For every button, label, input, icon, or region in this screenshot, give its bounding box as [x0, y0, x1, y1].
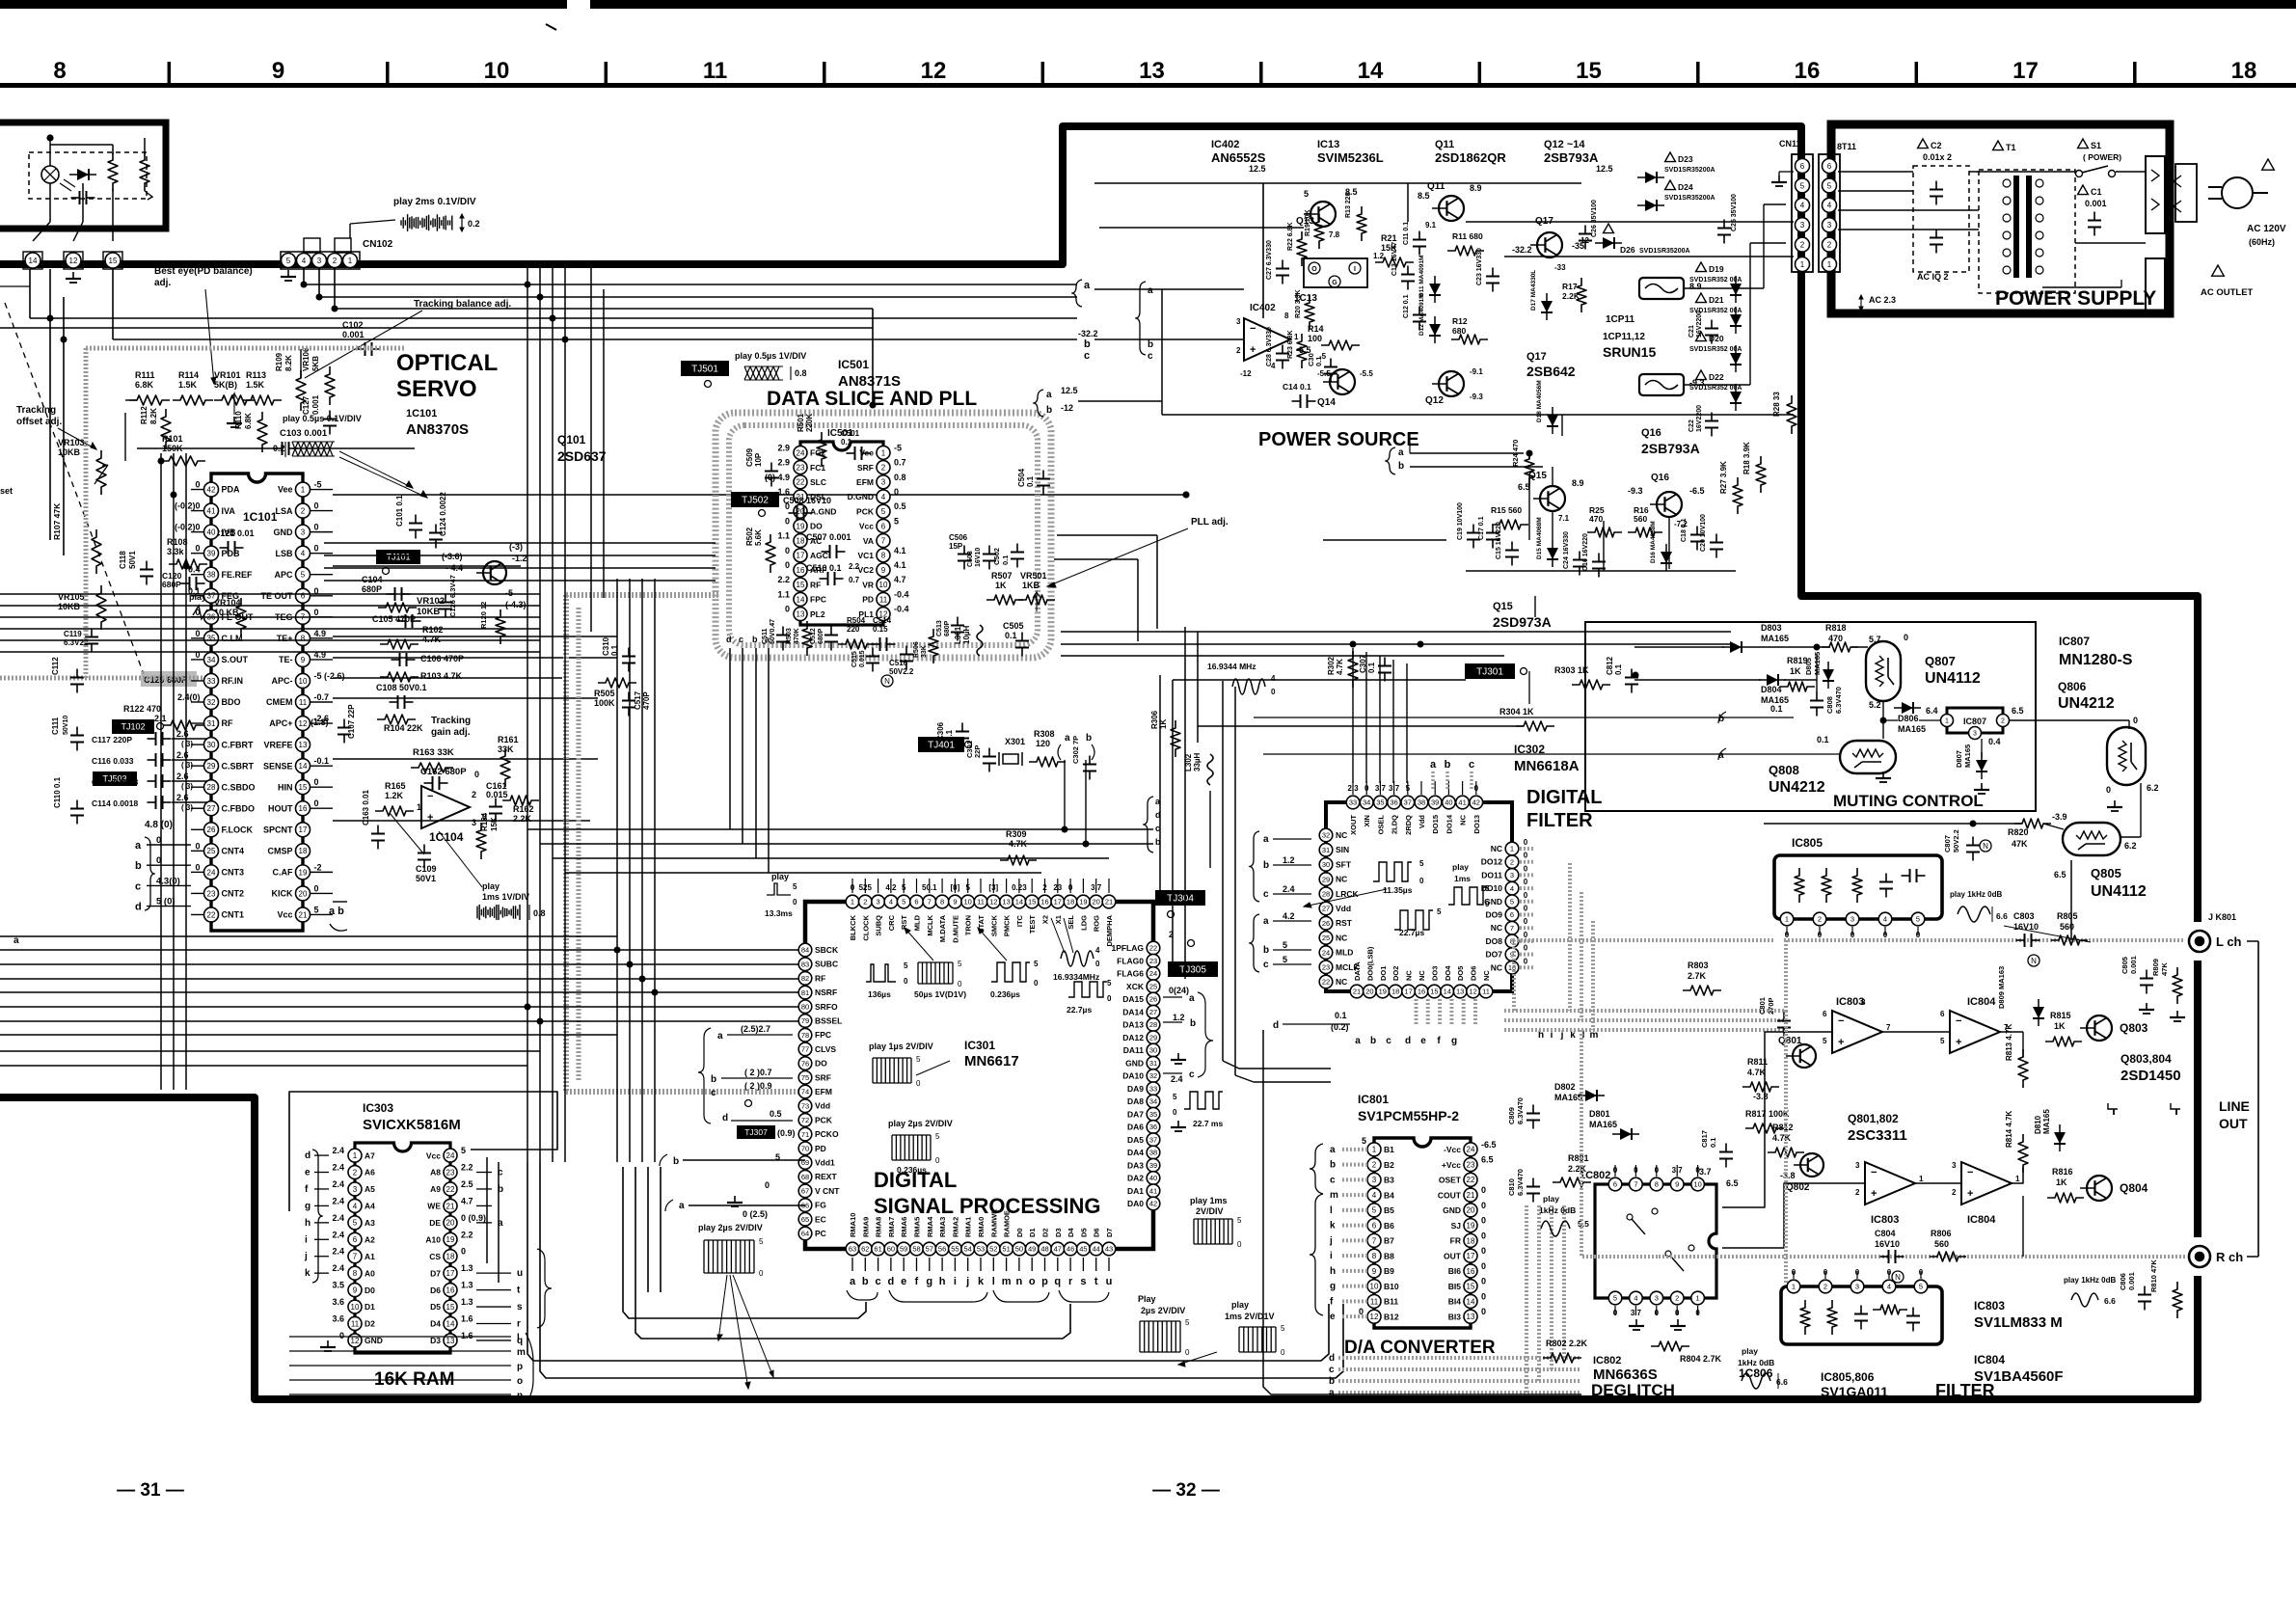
svg-text:24: 24	[1467, 1146, 1475, 1154]
svg-text:C507 0.001: C507 0.001	[806, 532, 851, 542]
ruler tick	[1915, 62, 1919, 83]
svg-text:0.1: 0.1	[1817, 735, 1829, 744]
svg-text:7: 7	[1886, 1023, 1891, 1032]
IC301 pin 23	[1147, 954, 1160, 967]
svg-text:0: 0	[1524, 891, 1528, 900]
svg-text:1PFLAG: 1PFLAG	[1111, 943, 1144, 953]
wire a down	[768, 648, 770, 873]
bus route 3	[527, 1162, 1329, 1361]
svg-text:CLOCK: CLOCK	[861, 914, 870, 940]
svg-text:2.9: 2.9	[777, 458, 790, 468]
svg-text:0.015: 0.015	[486, 790, 508, 799]
svg-text:11: 11	[299, 698, 308, 707]
svg-text:C126 6.3V47: C126 6.3V47	[448, 575, 457, 617]
svg-text:0.1: 0.1	[1314, 357, 1323, 366]
svg-text:37: 37	[1404, 798, 1412, 807]
svg-text:IC803: IC803	[1836, 996, 1864, 1008]
svg-text:R21: R21	[1381, 233, 1397, 243]
hatched stub down	[1462, 999, 1466, 1024]
wire	[137, 447, 278, 449]
svg-text:5: 5	[1510, 898, 1514, 907]
hatched wire to Lch line	[1514, 940, 1774, 1011]
wire to pin	[172, 738, 211, 740]
svg-text:C809: C809	[1507, 1107, 1516, 1124]
svg-text:D15 MA4068M: D15 MA4068M	[1536, 517, 1543, 559]
diode D16	[1661, 544, 1672, 571]
diode D19	[1730, 276, 1742, 303]
IC301 pin 79	[798, 1015, 812, 1028]
capacitor C23	[1486, 268, 1499, 292]
svg-text:-5 (-2.6): -5 (-2.6)	[314, 671, 345, 681]
svg-text:0.1: 0.1	[1026, 475, 1035, 487]
svg-text:-5: -5	[505, 588, 513, 598]
svg-text:83: 83	[801, 960, 809, 968]
svg-text:B7: B7	[1384, 1236, 1394, 1246]
svg-text:D1: D1	[1028, 1228, 1037, 1237]
svg-text:-9.3: -9.3	[1470, 392, 1483, 401]
svg-text:-Vcc: -Vcc	[1444, 1145, 1461, 1154]
svg-text:A7: A7	[365, 1150, 375, 1160]
op-amp IC804a	[1950, 1011, 2000, 1053]
pot VR106	[325, 366, 335, 405]
transistor Q11	[1432, 196, 1464, 221]
svg-text:UN4212: UN4212	[1769, 779, 1825, 796]
svg-text:C16 16V220: C16 16V220	[1582, 533, 1589, 571]
wire to CN11 pin3	[1763, 204, 1765, 288]
svg-text:UN4212: UN4212	[2058, 695, 2115, 712]
Q15 Q16 bias network	[1457, 440, 1723, 578]
leader line	[305, 311, 422, 378]
TJ301 drop	[1528, 671, 1530, 704]
resistor R25	[1587, 528, 1622, 537]
svg-text:5.5: 5.5	[1578, 1219, 1589, 1229]
svg-text:5: 5	[1940, 1037, 1945, 1045]
svg-text:C110 0.1: C110 0.1	[53, 776, 62, 808]
svg-text:2SB642: 2SB642	[1526, 364, 1576, 379]
CN11 pin 2	[1796, 237, 1810, 252]
svg-text:B6: B6	[1384, 1221, 1394, 1231]
svg-text:A2: A2	[365, 1234, 375, 1244]
svg-text:S1: S1	[2091, 141, 2101, 150]
main schematic block outline	[0, 126, 2198, 1399]
wire down to pin 12	[82, 183, 84, 222]
IC806 capacitor 2	[1906, 1308, 1920, 1332]
svg-text:C804: C804	[1875, 1229, 1896, 1238]
capacitor C804	[1880, 1250, 1904, 1263]
IC301 pin 19	[1077, 895, 1091, 908]
IC301 pin 84	[798, 943, 812, 957]
svg-text:C805: C805	[2120, 957, 2129, 974]
dashed T1 box	[1979, 170, 2075, 293]
junction dot	[537, 294, 543, 300]
dot a-R24	[1526, 450, 1532, 456]
svg-text:9: 9	[953, 898, 957, 907]
svg-text:-3.8: -3.8	[1753, 1092, 1769, 1101]
IC302 bottom hatched bus	[1355, 863, 1786, 1046]
svg-text:10: 10	[964, 898, 972, 907]
IC301 pin 70	[798, 1142, 812, 1155]
svg-text:11: 11	[351, 1319, 360, 1328]
IC302 pin 12	[1467, 985, 1480, 998]
svg-text:PLL adj.: PLL adj.	[1191, 517, 1229, 528]
svg-text:4.7K: 4.7K	[1772, 1133, 1792, 1143]
CN102 pin 5	[282, 254, 296, 268]
svg-text:FC1: FC1	[810, 463, 825, 473]
IC805 resistor 3	[1852, 868, 1862, 903]
svg-text:C310: C310	[602, 636, 610, 656]
svg-text:1: 1	[1785, 915, 1789, 924]
CN102 pin 3	[312, 254, 327, 268]
svg-text:0: 0	[314, 777, 319, 787]
svg-text:IC803: IC803	[1974, 1299, 2005, 1313]
svg-text:39: 39	[1431, 798, 1439, 807]
hatched stub	[1520, 886, 1533, 890]
svg-text:IC803: IC803	[1871, 1214, 1899, 1226]
IC301 pin 83	[798, 958, 812, 971]
svg-text:A3: A3	[365, 1218, 375, 1228]
svg-text:0: 0	[1481, 1216, 1486, 1226]
svg-text:C19 10V100: C19 10V100	[1457, 502, 1464, 540]
svg-text:Tracking: Tracking	[431, 716, 471, 726]
IC301 pin 34	[1147, 1095, 1160, 1108]
hatched shield left edge	[84, 348, 89, 680]
svg-text:0.001: 0.001	[2129, 956, 2138, 974]
svg-text:AC 120V: AC 120V	[2247, 224, 2286, 234]
svg-text:8.5: 8.5	[1418, 191, 1430, 201]
IC301 pin 1	[846, 895, 859, 908]
capacitor C16	[1592, 554, 1606, 578]
svg-text:C108 50V0.1: C108 50V0.1	[376, 683, 427, 692]
svg-text:6.3V470: 6.3V470	[1834, 687, 1843, 714]
svg-text:37: 37	[1149, 1135, 1157, 1144]
pin stub up	[992, 879, 994, 893]
svg-text:32: 32	[1322, 831, 1330, 840]
resistor R165	[375, 806, 414, 816]
wire	[1273, 949, 1311, 951]
svg-text:c: c	[1386, 1036, 1391, 1046]
skip3	[805, 495, 807, 540]
svg-text:DO8: DO8	[1486, 936, 1503, 946]
pot VR101	[214, 395, 255, 405]
svg-text:0: 0	[1481, 1261, 1486, 1271]
svg-text:22.7µs: 22.7µs	[1399, 928, 1424, 937]
svg-text:GND: GND	[274, 528, 294, 537]
svg-text:b: b	[752, 635, 758, 644]
svg-text:R507: R507	[991, 571, 1013, 581]
filter IC806	[1739, 1268, 2064, 1400]
svg-text:5.2: 5.2	[1869, 700, 1881, 710]
IC302 pin 19	[1376, 985, 1390, 998]
comb 50us	[918, 960, 962, 988]
svg-text:5: 5	[1919, 1283, 1923, 1291]
svg-text:4.7: 4.7	[461, 1196, 473, 1205]
resistor R814	[2018, 1134, 2028, 1173]
capacitor C124	[429, 525, 443, 549]
svg-text:2: 2	[353, 1168, 358, 1177]
resistor R309	[1000, 855, 1037, 865]
svg-text:C21: C21	[1688, 325, 1695, 338]
TJ101 point	[383, 568, 390, 575]
svg-text:N: N	[2031, 957, 2037, 965]
IC301 pin 71	[798, 1127, 812, 1141]
svg-text:c: c	[876, 1276, 881, 1287]
POWER SUPPLY interior	[1838, 139, 2286, 312]
svg-text:72: 72	[801, 1116, 809, 1124]
svg-text:SVD1SR35200A: SVD1SR35200A	[1664, 167, 1715, 174]
left vertical x180	[173, 453, 175, 1090]
svg-text:C515: C515	[851, 651, 858, 667]
vertical to y665	[1137, 559, 1139, 641]
IC301 pin 20	[1090, 895, 1103, 908]
resistor R21	[1375, 257, 1414, 267]
svg-text:SVD1SR35200A: SVD1SR35200A	[1664, 195, 1715, 202]
ground hook 1	[2108, 1103, 2118, 1109]
svg-text:C112: C112	[51, 657, 60, 675]
leader to Lch wire	[2004, 926, 2091, 942]
misc long wires right	[333, 495, 1581, 678]
IC301 pin 52	[987, 1242, 1001, 1256]
resistor R101	[161, 456, 205, 466]
junction dot	[550, 315, 555, 321]
svg-text:-5: -5	[894, 443, 902, 452]
ground near CN11	[1771, 176, 1787, 186]
svg-text:47: 47	[1054, 1245, 1062, 1254]
svg-text:1C802: 1C802	[1580, 1170, 1610, 1181]
comb bottom 1	[1140, 1318, 1190, 1357]
svg-text:C101 0.1: C101 0.1	[395, 495, 404, 527]
svg-text:SVD1SR352 00A: SVD1SR352 00A	[1689, 346, 1742, 353]
svg-text:A8: A8	[430, 1168, 441, 1177]
optical pickup block outline	[0, 122, 166, 229]
svg-text:C116 0.033: C116 0.033	[92, 756, 134, 766]
svg-text:D0: D0	[365, 1286, 375, 1295]
svg-text:D22: D22	[1709, 372, 1724, 382]
svg-text:R114: R114	[178, 370, 199, 380]
svg-text:10KB: 10KB	[417, 607, 440, 617]
svg-text:VR103: VR103	[58, 438, 85, 447]
svg-text:d: d	[305, 1150, 311, 1161]
wire	[1407, 183, 1409, 222]
svg-text:u: u	[1106, 1276, 1113, 1287]
DAC abc brace	[1310, 1144, 1323, 1194]
IC301 pin 59	[897, 1242, 910, 1256]
pin stub up	[916, 879, 918, 893]
svg-text:KICK: KICK	[272, 889, 293, 899]
pin stub up	[1018, 879, 1020, 893]
svg-text:1: 1	[417, 802, 421, 812]
svg-text:2.2: 2.2	[461, 1230, 473, 1239]
svg-text:50V1: 50V1	[128, 551, 137, 569]
hatched DAC stub	[1342, 1299, 1367, 1303]
svg-text:X2: X2	[1041, 915, 1050, 924]
pot VR102	[378, 603, 417, 612]
winding bump primary	[2003, 249, 2011, 257]
svg-text:1.2: 1.2	[1173, 1013, 1185, 1022]
IC805 pin 5	[1911, 912, 1925, 926]
svg-text:NC: NC	[1336, 830, 1347, 840]
ruler line	[0, 83, 2296, 88]
test jack TJ307	[737, 1125, 775, 1139]
pin stub up	[967, 879, 969, 893]
capacitor C509	[765, 463, 778, 487]
svg-text:50µs 1V(D1V): 50µs 1V(D1V)	[914, 989, 966, 999]
svg-text:R161: R161	[498, 735, 519, 744]
svg-text:6.3V470: 6.3V470	[1516, 1169, 1525, 1196]
capacitor C513	[951, 617, 964, 641]
svg-text:C.LM: C.LM	[222, 634, 243, 643]
svg-text:R803: R803	[1688, 961, 1709, 970]
svg-text:C.FBDO: C.FBDO	[222, 803, 256, 813]
svg-text:560: 560	[2060, 922, 2074, 932]
svg-text:Q14: Q14	[1317, 397, 1336, 408]
wire b srf	[721, 1077, 793, 1079]
IC806 resistor 3	[1873, 1305, 1907, 1314]
svg-text:1.6: 1.6	[461, 1313, 473, 1323]
svg-text:−: −	[1967, 1167, 1973, 1178]
svg-text:0: 0	[1481, 1291, 1486, 1301]
svg-text:7: 7	[928, 898, 932, 907]
wire	[112, 145, 114, 154]
capacitor C118	[140, 561, 153, 585]
svg-text:220: 220	[847, 625, 860, 634]
resistor R161	[500, 748, 510, 787]
resistor R813	[2018, 1049, 2028, 1088]
diode D806	[1894, 702, 1921, 714]
IC301 pin 2	[859, 895, 873, 908]
svg-text:0: 0	[1419, 877, 1424, 885]
svg-text:15: 15	[797, 581, 805, 589]
svg-text:10KB: 10KB	[58, 447, 81, 457]
svg-text:B8: B8	[1384, 1251, 1394, 1260]
svg-text:SV1PCM55HP-2: SV1PCM55HP-2	[1358, 1108, 1459, 1123]
svg-text:j: j	[1329, 1235, 1333, 1246]
Q807 ground	[1876, 771, 1891, 782]
svg-text:c: c	[135, 880, 141, 892]
svg-text:49: 49	[1028, 1245, 1036, 1254]
svg-text:C509: C509	[745, 447, 754, 467]
svg-text:RF: RF	[222, 718, 233, 728]
svg-text:Vdd: Vdd	[1418, 815, 1426, 829]
svg-text:0: 0	[474, 770, 479, 779]
bottom pin stub	[903, 1258, 905, 1271]
svg-text:play 0.5µs 1V/DIV: play 0.5µs 1V/DIV	[735, 351, 806, 361]
hatched DAC stub	[1342, 1285, 1367, 1288]
svg-text:75: 75	[801, 1073, 809, 1082]
hatched DAC stub	[1342, 1254, 1367, 1258]
svg-text:A5: A5	[365, 1184, 375, 1194]
svg-text:4: 4	[1095, 946, 1100, 955]
wire	[1078, 400, 1162, 402]
svg-text:R18 3.9K: R18 3.9K	[1742, 442, 1751, 474]
transistor Q16	[1650, 492, 1682, 517]
resistor R803	[1683, 986, 1721, 995]
power source wires	[1033, 183, 1794, 571]
svg-text:C13 16V47: C13 16V47	[1391, 242, 1398, 276]
resistor R102	[380, 639, 419, 649]
junction dot	[61, 337, 67, 342]
svg-text:0: 0	[1524, 838, 1528, 847]
svg-text:19: 19	[797, 522, 805, 530]
ruler tick	[1259, 62, 1263, 83]
resistor R17	[1577, 278, 1586, 312]
svg-text:2: 2	[1952, 1188, 1957, 1197]
svg-text:F.LOCK: F.LOCK	[222, 825, 254, 834]
ruler tick	[605, 62, 608, 83]
svg-text:NC: NC	[1418, 970, 1426, 981]
pin stub up	[1057, 879, 1059, 893]
IC301 pin 26	[1147, 992, 1160, 1006]
svg-text:R302: R302	[1327, 656, 1336, 675]
resistor R16	[1628, 528, 1662, 537]
svg-text:EFM: EFM	[815, 1087, 832, 1096]
svg-text:AC IQ 2: AC IQ 2	[1917, 272, 1949, 282]
svg-text:33µH: 33µH	[1193, 752, 1202, 771]
R ch jack outer	[2189, 1246, 2210, 1267]
VR103 arrow	[95, 465, 108, 484]
svg-text:R813 4.7K: R813 4.7K	[2005, 1024, 2013, 1061]
IC302 pin 2	[1505, 855, 1519, 869]
resistor R806	[1930, 1252, 1966, 1261]
svg-text:D7: D7	[1105, 1228, 1114, 1237]
svg-text:+Vcc: +Vcc	[1442, 1160, 1461, 1170]
svg-text:V CNT: V CNT	[815, 1186, 840, 1196]
RAM ground	[320, 1340, 336, 1351]
long wire y680	[1061, 655, 1504, 657]
svg-text:2V/DIV: 2V/DIV	[1196, 1206, 1224, 1216]
svg-text:C162 680P: C162 680P	[420, 767, 467, 777]
switch lever	[2082, 166, 2108, 173]
svg-text:C109: C109	[416, 864, 437, 874]
svg-text:c: c	[1084, 350, 1090, 362]
svg-text:4.7K: 4.7K	[1009, 839, 1028, 849]
wire to IC301 left y1059	[0, 1020, 800, 1022]
svg-text:52: 52	[989, 1245, 997, 1254]
IC805 resistor 2	[1822, 868, 1831, 903]
svg-text:28: 28	[207, 783, 216, 792]
svg-text:C513: C513	[936, 620, 943, 636]
svg-text:1ms: 1ms	[1454, 874, 1471, 883]
svg-text:0: 0	[1173, 1108, 1177, 1117]
wire mc2	[1749, 646, 1830, 648]
N circle L	[2028, 955, 2039, 966]
bus route 1	[623, 1167, 866, 1318]
svg-text:25: 25	[1322, 934, 1330, 942]
switch contact a	[1627, 1214, 1633, 1220]
svg-text:11.35µs: 11.35µs	[1383, 885, 1413, 895]
IC302 body	[1326, 802, 1512, 991]
capacitor C27	[1276, 260, 1289, 284]
svg-text:DO5: DO5	[1456, 966, 1465, 981]
PLL adj leader	[1047, 528, 1188, 586]
svg-text:24: 24	[797, 448, 805, 457]
diode D17	[1541, 293, 1553, 320]
svg-text:17: 17	[1054, 898, 1062, 907]
svg-text:19: 19	[1079, 898, 1087, 907]
svg-text:l: l	[992, 1276, 995, 1287]
svg-text:15: 15	[109, 257, 118, 265]
capacitor C17	[1486, 525, 1499, 549]
CN11 pin 5	[1796, 178, 1810, 193]
hatched vertical ic302 c	[1591, 921, 1595, 1030]
svg-text:DA5: DA5	[1127, 1135, 1144, 1145]
svg-text:CRC: CRC	[887, 914, 896, 931]
bus wire mid 2	[324, 567, 716, 569]
wire from pin15 down	[112, 269, 114, 339]
svg-text:0.5: 0.5	[770, 1109, 782, 1119]
svg-text:0: 0	[1524, 957, 1528, 965]
wire to TJ301 row	[1173, 679, 1466, 681]
svg-text:B5: B5	[1384, 1205, 1394, 1215]
